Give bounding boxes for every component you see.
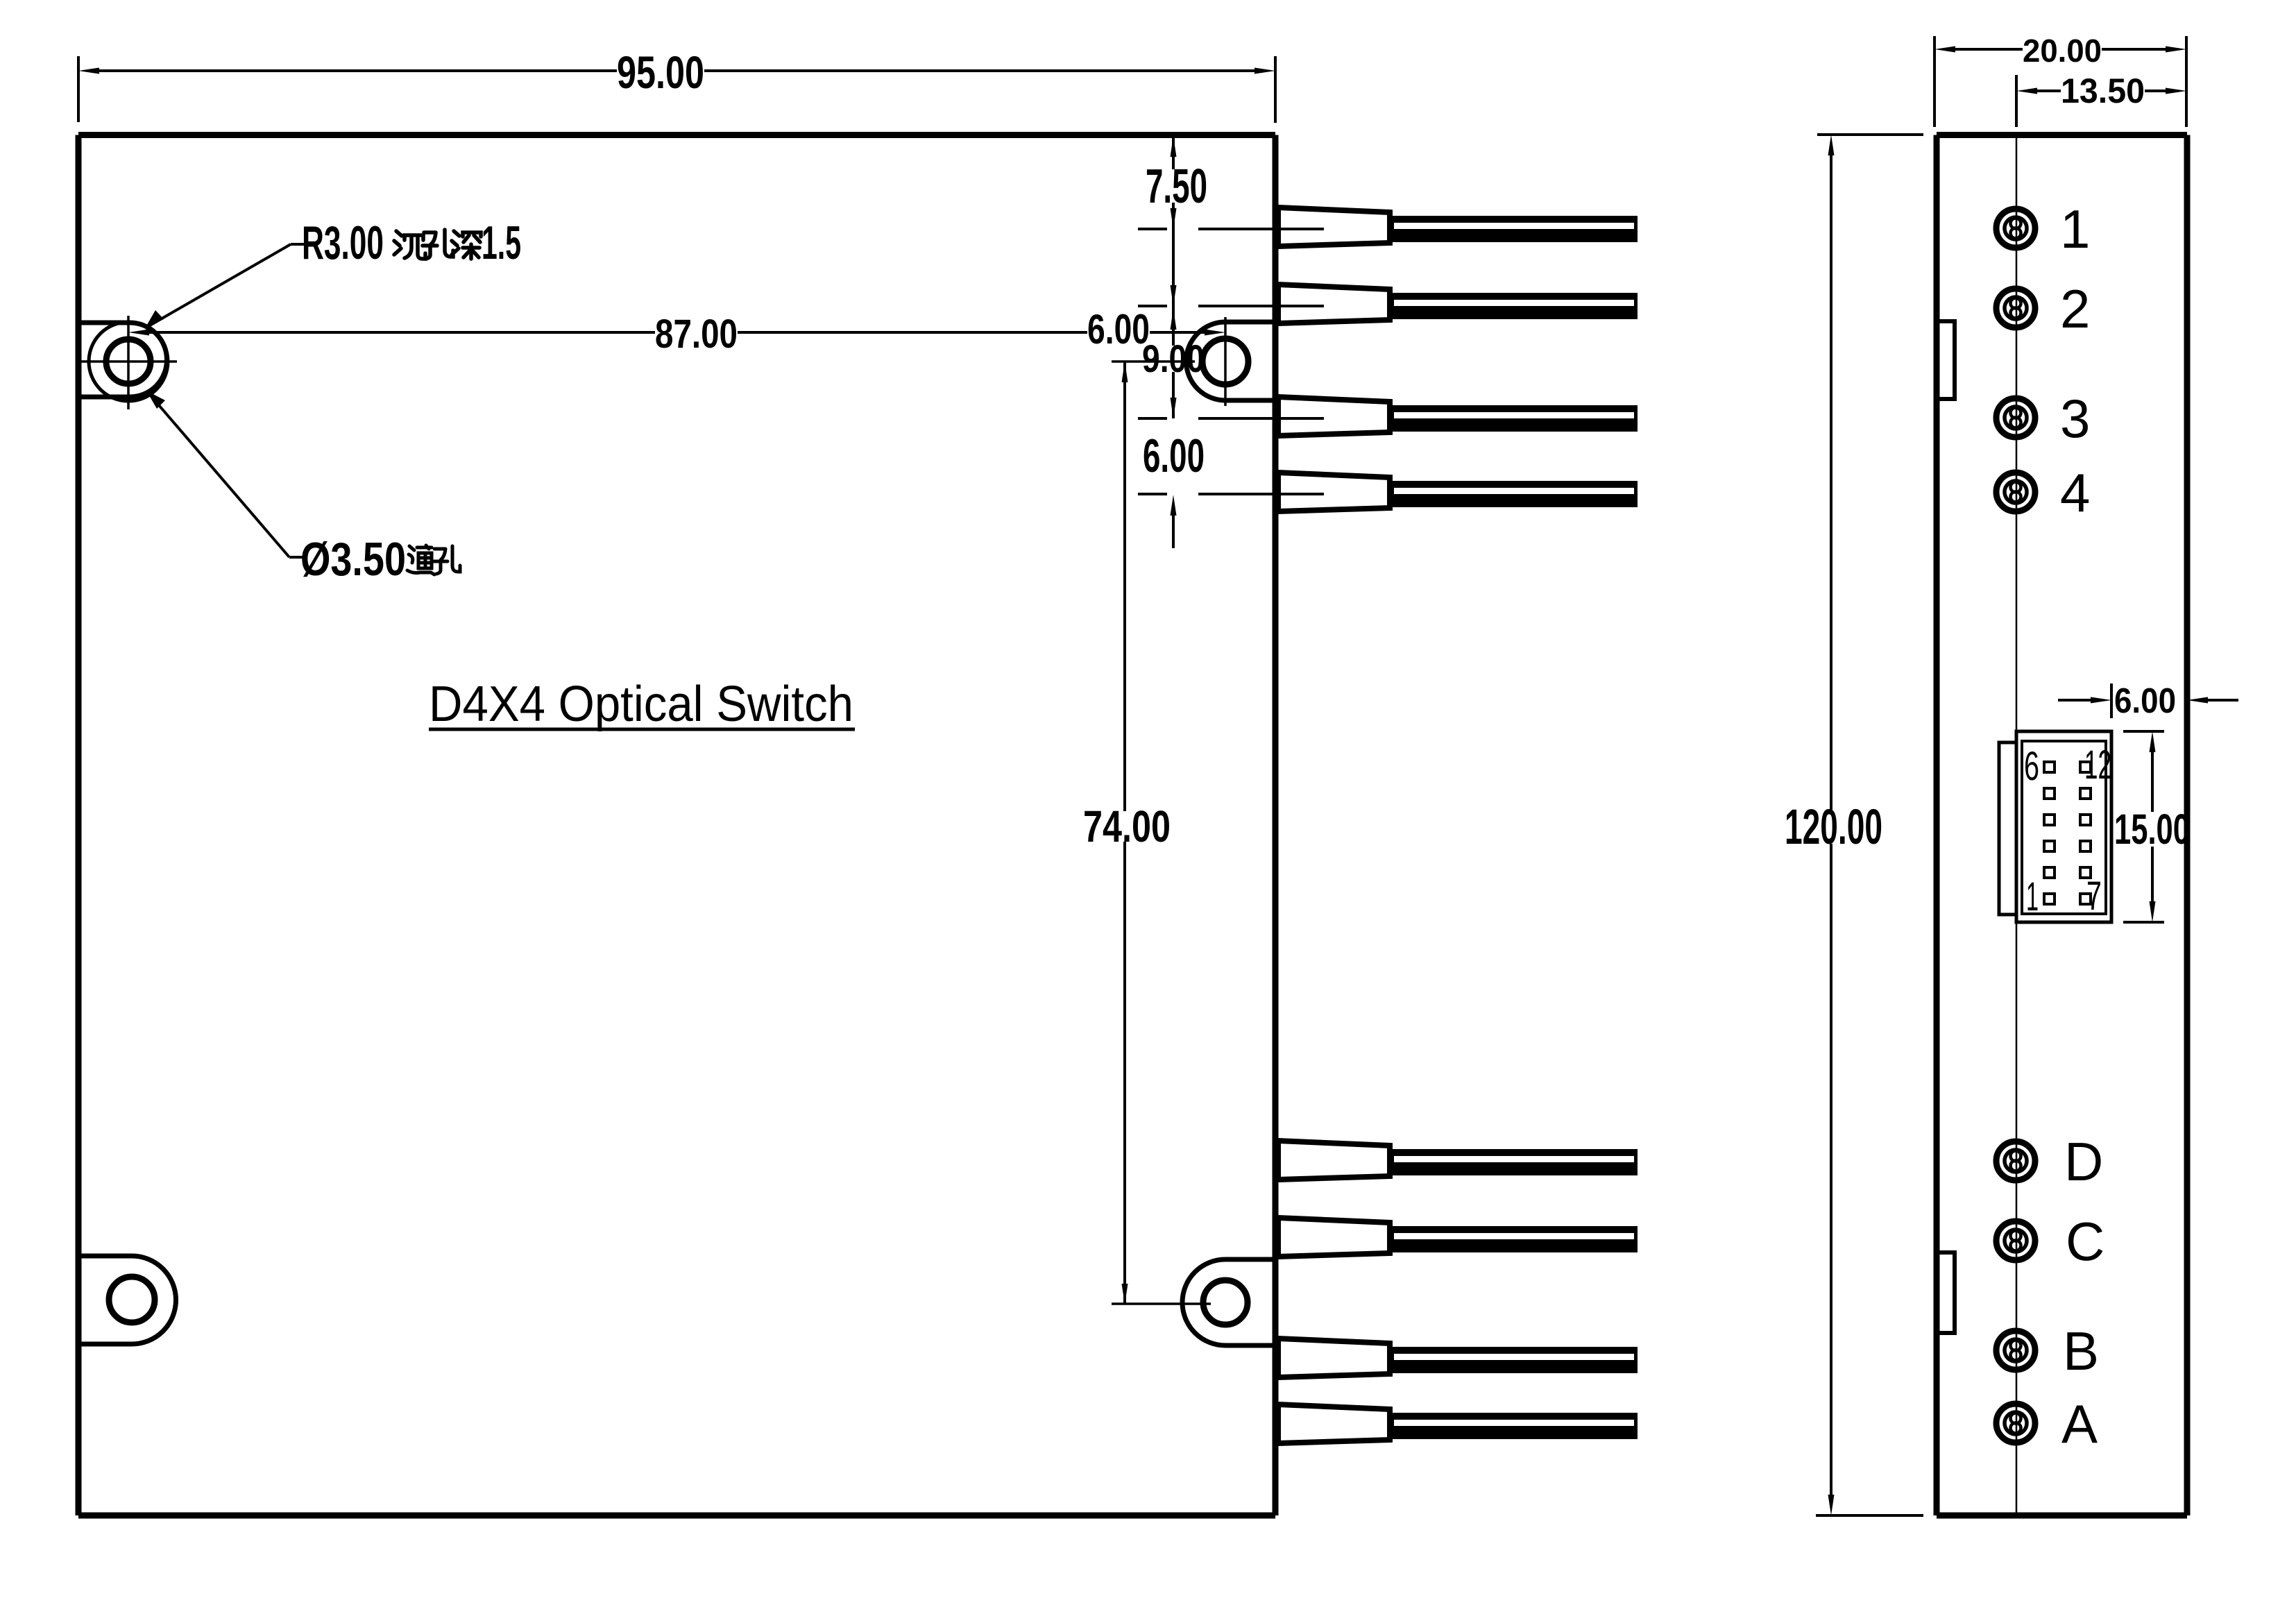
dimension 120.00 ticks <box>1817 133 1923 136</box>
screw/port symbol 1 <box>1996 209 2035 248</box>
fiber pigtail 6: ferrule <box>1278 1218 1390 1257</box>
dimension 9.00 line <box>1172 306 1175 346</box>
dimension 6.00 (connector) right segment <box>2208 699 2238 702</box>
dimension 6.00 (connector) extension tick <box>2110 683 2113 718</box>
pigtail 2 centerline tick <box>1138 305 1167 307</box>
screw/port symbol B <box>1996 1331 2035 1370</box>
dimension 13.50 extension <box>2015 75 2018 127</box>
screw/port symbol D <box>1996 1141 2035 1180</box>
hole circle (bottom-left) <box>109 1277 155 1323</box>
leader Ø3.50 through hole <box>146 391 289 557</box>
side view lower notch <box>1937 1252 1955 1333</box>
pigtail 3 centerline tick <box>1138 417 1167 420</box>
hole circle (top-left, Ø3.50) <box>106 339 151 384</box>
fiber pigtail 5: ferrule <box>1278 1141 1390 1180</box>
center mark / 74.00 bottom extension <box>1112 1302 1211 1305</box>
side view: housing outline (20 x 120) <box>1937 135 2187 1516</box>
svg-text:120.00: 120.00 <box>1785 800 1882 855</box>
svg-text:1.5: 1.5 <box>482 216 521 269</box>
dimension 15.00 line <box>2151 752 2154 812</box>
svg-text:87.00: 87.00 <box>655 312 738 357</box>
connector outer body <box>2016 731 2111 922</box>
svg-text:6.00: 6.00 <box>1143 430 1205 482</box>
dimension 95.00 line <box>99 69 617 72</box>
svg-text:9.00: 9.00 <box>1142 337 1205 380</box>
svg-text:12: 12 <box>2084 742 2111 788</box>
svg-text:6.00: 6.00 <box>2114 681 2176 720</box>
dimension 74.00 top extension <box>1112 360 1195 363</box>
fiber pigtail 8: fiber cable <box>1390 1413 1638 1439</box>
connector pins (2 x 6) <box>2044 762 2055 772</box>
svg-text:C: C <box>2066 1211 2104 1272</box>
hole circle (top-right) <box>1202 339 1248 384</box>
svg-text:R3.00: R3.00 <box>302 216 384 269</box>
fiber pigtail 7: fiber cable <box>1390 1347 1638 1373</box>
svg-text:7: 7 <box>2086 874 2102 919</box>
svg-text:2: 2 <box>2060 278 2090 339</box>
svg-text:Ø3.50: Ø3.50 <box>300 533 406 586</box>
center marks (top-left hole) <box>127 316 130 409</box>
dimension 6.00 (pigtail 1-2) line <box>1172 229 1175 306</box>
dimension 120.00 line <box>1830 155 1832 810</box>
dimension 87.00 line <box>149 331 655 334</box>
svg-text:D: D <box>2064 1131 2103 1192</box>
svg-text:7.50: 7.50 <box>1146 159 1207 213</box>
dimension 7.50 line <box>1172 135 1175 169</box>
label 通孔 (hand-drawn glyphs) <box>407 545 434 575</box>
svg-text:6.00: 6.00 <box>1087 306 1150 352</box>
svg-text:13.50: 13.50 <box>2061 71 2145 110</box>
counterbore circle R3.00 <box>89 322 168 401</box>
screw/port symbol C <box>1996 1221 2035 1260</box>
dimension 95.00 extension lines <box>77 56 80 122</box>
fiber pigtail 3: ferrule <box>1278 397 1390 436</box>
svg-text:1: 1 <box>2060 198 2090 260</box>
leader R3.00 counterbore <box>145 244 291 328</box>
fiber pigtail 1: fiber cable <box>1390 216 1638 242</box>
fiber pigtail 4: ferrule <box>1278 473 1390 511</box>
dimension 13.50 line <box>2037 90 2061 92</box>
top-left mounting ear (tab with counterbored hole) <box>78 323 167 397</box>
svg-text:1: 1 <box>2026 874 2039 919</box>
svg-text:74.00: 74.00 <box>1083 801 1171 851</box>
side view upper notch <box>1937 321 1955 399</box>
screw/port symbol A <box>1996 1404 2035 1443</box>
screw/port symbol 2 <box>1996 289 2035 328</box>
top-right mounting ear (tab with through hole) <box>1187 322 1276 400</box>
screw/port symbol 4 <box>1996 473 2035 511</box>
svg-text:A: A <box>2061 1393 2098 1454</box>
dimension 6.00 (connector) left segment <box>2058 699 2091 702</box>
main view: D4X4 optical switch housing outline (95 x body) <box>78 135 1275 1516</box>
connector flange <box>1999 742 2016 915</box>
pigtail 4 centerline tick <box>1138 493 1167 495</box>
screw/port symbol 3 <box>1996 398 2035 437</box>
fiber pigtail 6: fiber cable <box>1390 1226 1638 1252</box>
dimension 20.00 line <box>1955 48 2023 51</box>
bottom-right mounting ear <box>1182 1259 1275 1345</box>
hole circle (bottom-right) <box>1203 1280 1248 1325</box>
fiber pigtail 8: ferrule <box>1278 1404 1390 1443</box>
svg-text:95.00: 95.00 <box>617 46 704 98</box>
side view vertical centerline <box>2016 135 2018 1515</box>
svg-text:3: 3 <box>2060 388 2090 449</box>
center mark (top-right hole) <box>1224 317 1227 406</box>
svg-text:D4X4 Optical Switch: D4X4 Optical Switch <box>429 677 853 732</box>
fiber pigtail 5: fiber cable <box>1390 1149 1638 1175</box>
bottom-left mounting ear <box>78 1256 176 1344</box>
pigtail 1 centerline tick <box>1138 228 1167 230</box>
dimension 74.00 line <box>1123 362 1126 811</box>
fiber pigtail 1: ferrule <box>1278 207 1390 246</box>
svg-text:6: 6 <box>2024 744 2039 789</box>
fiber pigtail 4: fiber cable <box>1390 481 1638 507</box>
fiber pigtail 2: ferrule <box>1278 284 1390 323</box>
connector inner body <box>2022 741 2106 914</box>
label 沉孔深 (hand-drawn glyphs) <box>394 231 425 259</box>
dimension 20.00 extension lines <box>1933 36 1936 127</box>
fiber pigtail 2: fiber cable <box>1390 293 1638 319</box>
svg-text:20.00: 20.00 <box>2023 33 2102 69</box>
fiber pigtail 7: ferrule <box>1278 1339 1390 1377</box>
dimension 6.00 (pigtail 3-4) outside arrows <box>1172 516 1175 548</box>
fiber pigtail 3: fiber cable <box>1390 405 1638 432</box>
svg-text:15.00: 15.00 <box>2114 806 2190 853</box>
dimension 15.00 ticks <box>2123 730 2164 733</box>
svg-text:B: B <box>2063 1320 2099 1382</box>
svg-text:4: 4 <box>2060 462 2090 523</box>
